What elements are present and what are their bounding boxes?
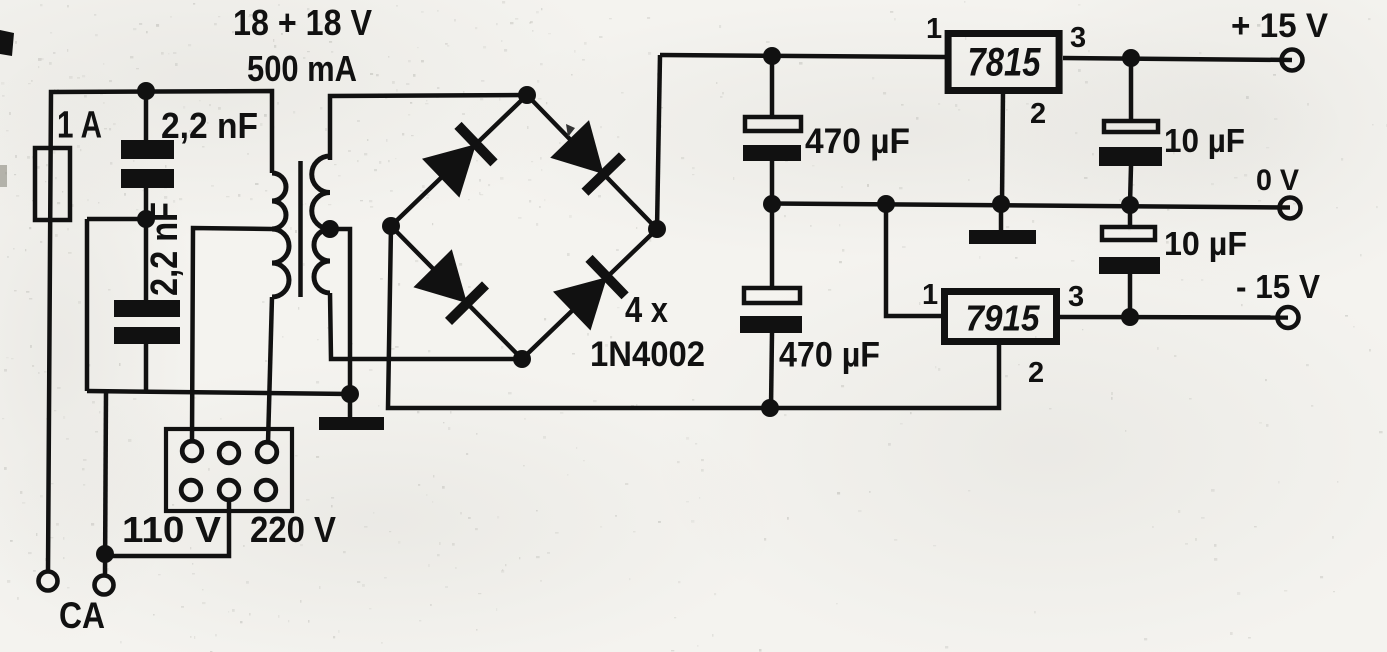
svg-text:4 x: 4 x <box>625 289 668 330</box>
svg-text:470 µF: 470 µF <box>779 336 880 375</box>
svg-text:+ 15 V: + 15 V <box>1231 7 1328 45</box>
svg-text:470 µF: 470 µF <box>805 122 910 161</box>
svg-text:110 V: 110 V <box>122 509 221 550</box>
svg-text:7815: 7815 <box>968 41 1042 85</box>
svg-text:500 mA: 500 mA <box>247 48 357 89</box>
svg-text:2: 2 <box>1030 98 1046 130</box>
svg-text:3: 3 <box>1070 22 1086 54</box>
svg-text:CA: CA <box>59 595 105 636</box>
svg-text:0 V: 0 V <box>1256 164 1299 197</box>
svg-text:2,2 nF: 2,2 nF <box>144 202 186 296</box>
svg-text:- 15 V: - 15 V <box>1236 268 1320 305</box>
svg-text:10 µF: 10 µF <box>1164 122 1245 159</box>
svg-text:7915: 7915 <box>966 298 1041 339</box>
svg-text:2: 2 <box>1028 357 1044 389</box>
svg-text:1: 1 <box>926 13 942 45</box>
svg-text:3: 3 <box>1068 281 1084 313</box>
svg-text:10 µF: 10 µF <box>1164 225 1247 262</box>
svg-text:18 + 18 V: 18 + 18 V <box>233 2 372 43</box>
svg-text:1: 1 <box>922 279 938 311</box>
svg-text:1 A: 1 A <box>57 105 102 147</box>
svg-text:220 V: 220 V <box>250 509 336 550</box>
svg-text:1N4002: 1N4002 <box>590 335 705 374</box>
svg-text:2,2 nF: 2,2 nF <box>161 105 258 146</box>
